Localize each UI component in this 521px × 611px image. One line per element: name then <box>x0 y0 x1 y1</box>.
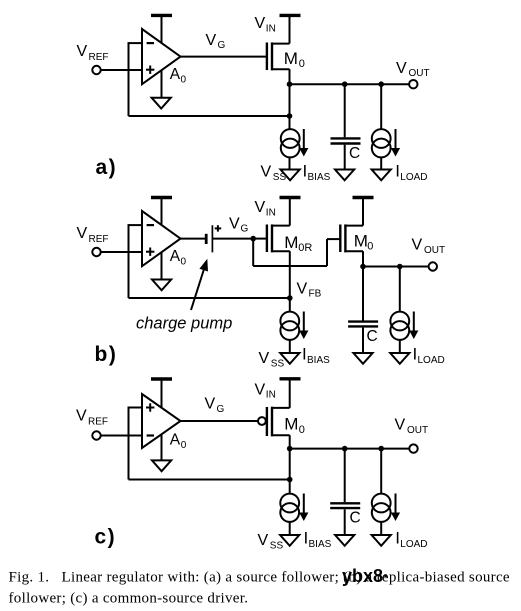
svg-text:G: G <box>218 40 226 51</box>
wire node VG: op-amp output to M0 gate (a) <box>181 32 267 57</box>
svg-text:LOAD: LOAD <box>400 172 427 183</box>
current source IBIAS (c) <box>280 480 331 551</box>
wire feedback horizontal (a) <box>129 115 290 117</box>
svg-text:IN: IN <box>266 24 276 35</box>
svg-text:V: V <box>297 281 308 298</box>
svg-text:C: C <box>349 145 360 162</box>
node junction capacitor / rail (a) <box>342 81 348 87</box>
wire rail to feedback node (a) <box>289 84 291 116</box>
terminal VOUT (a) <box>396 60 430 88</box>
node junction feedback (a) <box>287 113 293 119</box>
terminal VREF (c) <box>76 408 108 440</box>
power rail (op-amp A0 supply, a) <box>151 15 172 48</box>
terminal VOUT (c) <box>395 417 429 453</box>
wire (ground riser op-amp, b) <box>161 244 163 280</box>
wire M0 drain to output rail (c) <box>289 435 291 448</box>
svg-text:OUT: OUT <box>407 425 428 436</box>
svg-text:a): a) <box>96 156 118 179</box>
svg-text:0: 0 <box>181 440 187 451</box>
net label VSS (c) <box>258 532 284 552</box>
svg-text:SS: SS <box>273 172 287 183</box>
net label VSS (b) <box>259 350 285 370</box>
svg-text:BIAS: BIAS <box>307 355 330 366</box>
power rail VIN (M0R drain supply, b) <box>255 198 301 219</box>
svg-text:C: C <box>367 328 378 345</box>
svg-text:SS: SS <box>271 359 285 370</box>
current source IBIAS (b) <box>280 298 330 366</box>
node junction capacitor / rail (c) <box>342 446 348 452</box>
svg-text:M: M <box>354 231 368 250</box>
power rail (M0 drain supply, b) <box>353 197 374 199</box>
transistor M0 (b) <box>340 198 373 253</box>
wire VREF to op-amp + input (a) <box>101 69 142 71</box>
svg-text:0: 0 <box>299 424 305 436</box>
svg-text:REF: REF <box>89 234 109 245</box>
wire node VG: op-amp output to M0 gate bubble (c) <box>181 396 258 422</box>
transistor M0R (b) <box>267 198 313 254</box>
op-amp A0 (c) <box>142 394 187 451</box>
wire output rail (a) <box>290 83 410 85</box>
net label VSS (a) <box>261 164 287 184</box>
op-amp A0 (a) <box>142 29 187 85</box>
ground (op-amp A0, b) <box>152 280 171 291</box>
node junction M0 drain / rail (c) <box>287 446 293 452</box>
svg-text:0R: 0R <box>298 242 312 254</box>
svg-text:V: V <box>255 199 266 216</box>
ground (ILOAD, a) <box>372 170 391 181</box>
current source IBIAS (a) <box>281 116 331 183</box>
ground (IBIAS, b) <box>280 353 299 364</box>
wire feedback horizontal VFB (b) <box>129 297 290 299</box>
ground (IBIAS, c) <box>280 535 299 546</box>
svg-text:V: V <box>229 216 240 233</box>
node junction VG (b) <box>250 236 256 242</box>
svg-text:REF: REF <box>88 417 108 428</box>
svg-text:V: V <box>396 60 407 77</box>
wire M0R source to node VFB (b) <box>289 251 291 298</box>
wire (ground riser op-amp, c) <box>161 426 163 460</box>
svg-text:M: M <box>284 415 298 434</box>
wire VG to M0 gate U-route (b) <box>253 239 340 266</box>
svg-text:ybx8·: ybx8· <box>342 566 389 586</box>
capacitor C (b) <box>348 267 378 354</box>
ground (IBIAS, a) <box>281 170 300 181</box>
charge pump battery (b) <box>206 225 221 252</box>
wire VREF to op-amp + input (b) <box>101 251 142 253</box>
node junction VFB (b) <box>287 281 322 301</box>
ground (op-amp A0, c) <box>152 460 171 471</box>
current source ILOAD (c) <box>372 449 428 550</box>
wire feedback to op-amp - input (b) <box>129 224 143 298</box>
svg-text:V: V <box>255 382 266 399</box>
svg-text:A: A <box>170 248 181 265</box>
node junction M0 source / rail (a) <box>287 81 293 87</box>
svg-text:BIAS: BIAS <box>309 539 332 550</box>
svg-text:V: V <box>255 15 266 32</box>
node junction feedback (c) <box>287 477 293 483</box>
wire VREF to op-amp - input (c) <box>101 435 142 437</box>
svg-text:V: V <box>76 408 87 425</box>
svg-text:A: A <box>170 66 181 83</box>
transistor M0 PMOS (c) <box>258 379 305 437</box>
capacitor C (c) <box>330 449 361 535</box>
svg-text:follower; (c) a common-source: follower; (c) a common-source driver. <box>9 591 249 607</box>
svg-text:V: V <box>259 350 270 367</box>
node junction ILOAD / rail (b) <box>397 264 403 270</box>
svg-text:IN: IN <box>266 390 276 401</box>
wire M0 source to output rail (b) <box>362 251 364 266</box>
svg-text:V: V <box>261 164 272 181</box>
svg-text:V: V <box>412 237 423 254</box>
terminal VREF (a) <box>77 43 109 74</box>
ground (C, c) <box>335 535 354 546</box>
ground (ILOAD, c) <box>372 535 391 546</box>
wire VG to M0R gate (b) <box>253 238 267 240</box>
svg-text:BIAS: BIAS <box>308 172 331 183</box>
node junction ILOAD / rail (c) <box>378 446 384 452</box>
svg-text:0: 0 <box>181 74 187 85</box>
current source ILOAD (a) <box>372 84 428 183</box>
svg-text:G: G <box>217 404 225 415</box>
svg-text:M: M <box>284 49 298 68</box>
ground (op-amp A0, a) <box>152 98 171 109</box>
ground (C, a) <box>335 170 354 181</box>
wire M0 source to output rail (a) <box>289 69 291 84</box>
svg-text:OUT: OUT <box>424 245 445 256</box>
svg-text:LOAD: LOAD <box>418 355 445 366</box>
ground (ILOAD, b) <box>390 353 409 364</box>
transistor M0 (a) <box>267 15 305 70</box>
svg-text:V: V <box>395 417 406 434</box>
svg-text:V: V <box>77 225 88 242</box>
terminal VOUT (b) <box>412 237 446 271</box>
svg-text:IN: IN <box>266 208 276 219</box>
wire charge pump to node VG (b) <box>212 216 253 239</box>
power rail (op-amp A0 supply, c) <box>151 379 172 412</box>
svg-text:charge pump: charge pump <box>136 315 232 333</box>
node junction ILOAD / rail (a) <box>378 81 384 87</box>
svg-text:Fig. 1. Linear regulator wit: Fig. 1. Linear regulator with: (a) a sou… <box>9 570 510 586</box>
svg-text:REF: REF <box>89 52 109 63</box>
wire (ground riser op-amp, a) <box>161 62 163 98</box>
power rail VIN (M0 source supply, c) <box>255 379 301 401</box>
wire rail to feedback node (c) <box>289 449 291 480</box>
svg-text:V: V <box>77 43 88 60</box>
svg-text:c): c) <box>95 526 117 549</box>
svg-text:V: V <box>258 532 269 549</box>
svg-text:0: 0 <box>367 240 373 252</box>
svg-text:0: 0 <box>181 256 187 267</box>
svg-text:SS: SS <box>270 541 284 552</box>
svg-text:LOAD: LOAD <box>400 539 427 550</box>
svg-text:C: C <box>350 510 361 527</box>
svg-text:M: M <box>284 233 298 252</box>
node junction M0 source / rail (b) <box>360 264 366 270</box>
svg-text:A: A <box>170 432 181 449</box>
wire feedback to op-amp + input (c) <box>129 407 143 480</box>
svg-text:V: V <box>206 32 217 49</box>
current source ILOAD (b) <box>390 267 444 367</box>
svg-text:b): b) <box>95 343 118 366</box>
ground (C, b) <box>353 353 372 364</box>
svg-text:G: G <box>241 224 249 235</box>
power rail VIN (M0 drain supply, a) <box>255 15 301 35</box>
svg-text:V: V <box>205 396 216 413</box>
svg-text:OUT: OUT <box>409 68 430 79</box>
wire feedback horizontal (c) <box>129 479 290 481</box>
op-amp A0 (b) <box>142 211 187 267</box>
capacitor C (a) <box>331 84 361 169</box>
svg-text:FB: FB <box>309 289 322 300</box>
wire output rail (c) <box>290 448 410 450</box>
terminal VREF (b) <box>77 225 109 256</box>
wire output rail (b) <box>363 266 429 268</box>
power rail (op-amp A0 supply, b) <box>151 198 172 231</box>
annotation arrow to charge pump (b) <box>191 259 208 310</box>
svg-text:0: 0 <box>299 58 305 70</box>
wire op-amp output to charge pump (b) <box>181 238 207 240</box>
wire feedback to op-amp - input (a) <box>129 42 143 116</box>
